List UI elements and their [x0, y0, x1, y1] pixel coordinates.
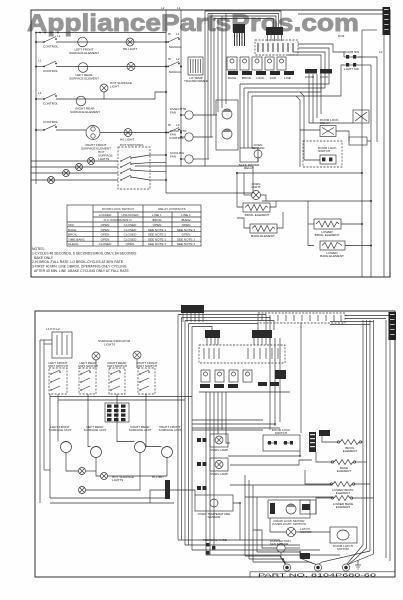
- svg-text:SEE NOTE 3: SEE NOTE 3: [148, 242, 167, 246]
- svg-text:ELEMENT: ELEMENT: [343, 449, 358, 453]
- right front dual surface element: [86, 126, 100, 140]
- misc horizontal wires bottom: [50, 396, 192, 398]
- small dark component top right: [319, 430, 330, 436]
- rung 3 wire: [36, 98, 44, 100]
- lamp hs4: [48, 177, 55, 184]
- switch rung4 right: [168, 128, 179, 133]
- connector bar row: [228, 71, 238, 75]
- svg-text:L1: L1: [38, 91, 42, 95]
- connector pair 2: [197, 462, 201, 466]
- wire top inner bus: [298, 13, 384, 15]
- svg-text:FAN: FAN: [170, 154, 176, 158]
- svg-text:HI-LIMIT: HI-LIMIT: [152, 475, 164, 479]
- switch left front control: [44, 37, 56, 43]
- lower bake element lower panel: [334, 496, 350, 501]
- svg-text:LINE 1: LINE 1: [181, 213, 191, 217]
- switch left rear control: [44, 61, 56, 67]
- svg-text:UNIT SWITCH: UNIT SWITCH: [48, 364, 68, 368]
- oven lamp 2: [210, 458, 228, 471]
- svg-text:SEE NOTE 1: SEE NOTE 1: [177, 237, 196, 241]
- svg-text:L2: L2: [379, 50, 383, 54]
- broil element: [243, 203, 270, 212]
- left wiring mesh: [57, 394, 59, 442]
- svg-text:RELAY: RELAY: [244, 166, 254, 170]
- svg-text:2-HI BROIL-FULL RATE. LO BROIL: 2-HI BROIL-FULL RATE. LO BROIL-CYCLES AT…: [32, 260, 124, 264]
- lamp row wire 3: [31, 172, 118, 174]
- lamp HS light 4: [124, 129, 132, 137]
- svg-text:OPEN: OPEN: [101, 223, 110, 227]
- svg-text:SWITCH: SWITCH: [318, 149, 330, 153]
- svg-text:TRANSFORMER: TRANSFORMER: [184, 79, 209, 83]
- lamp hs3: [63, 170, 70, 177]
- relay row: [227, 57, 237, 70]
- svg-text:MOTOR: MOTOR: [337, 547, 349, 551]
- top dashed connector strip: [258, 313, 345, 323]
- svg-text:UNIT SWITCH: UNIT SWITCH: [137, 364, 157, 368]
- svg-text:SURFACE UNIT: SURFACE UNIT: [84, 428, 107, 432]
- loop wire pair mid: [296, 96, 300, 167]
- svg-text:FAN: FAN: [270, 76, 276, 80]
- svg-text:SEE NOTE 1: SEE NOTE 1: [177, 228, 196, 232]
- central vertical harness: [177, 315, 179, 541]
- svg-text:L1: L1: [38, 59, 42, 63]
- svg-text:BROIL: BROIL: [242, 76, 252, 80]
- svg-text:L1: L1: [57, 34, 61, 38]
- surface unit element 2: [91, 447, 102, 458]
- svg-text:OVEN LAMP: OVEN LAMP: [210, 448, 228, 452]
- svg-text:SURFACE ELEMENT: SURFACE ELEMENT: [69, 51, 99, 55]
- svg-text:RELAY: RELAY: [320, 121, 330, 125]
- table notes: [32, 247, 137, 273]
- wire mesh right: [358, 56, 362, 58]
- switch rung2 right: [168, 62, 179, 67]
- bake element lower panel: [334, 460, 353, 465]
- svg-text:SENSOR: SENSOR: [207, 515, 221, 519]
- top panel border: [31, 10, 390, 277]
- wire bundle top: [205, 11, 281, 27]
- svg-text:LIGHTS: LIGHTS: [98, 157, 109, 161]
- svg-text:LINE: LINE: [284, 76, 291, 80]
- svg-text:CLEAN: CLEAN: [68, 242, 78, 246]
- broil element lower panel: [340, 440, 359, 445]
- svg-text:DOOR: DOOR: [305, 75, 315, 79]
- svg-text:ELEMENT: ELEMENT: [336, 491, 351, 495]
- top distribution wires: [178, 315, 266, 331]
- svg-text:THERMAL FUSE: THERMAL FUSE: [203, 538, 227, 542]
- svg-text:BAKE ONLY.: BAKE ONLY.: [34, 256, 54, 260]
- svg-text:OVEN LAMP: OVEN LAMP: [210, 472, 228, 476]
- mid horizontal wire: [135, 165, 253, 167]
- oven fan motor: [185, 111, 193, 119]
- svg-text:UNLOCKED: UNLOCKED: [121, 213, 139, 217]
- svg-text:MANUAL: MANUAL: [169, 70, 182, 74]
- svg-text:CONTROL: CONTROL: [169, 136, 184, 140]
- bus L1 vertical: [180, 10, 182, 166]
- hot surface light lamp: [100, 84, 108, 92]
- svg-text:L1: L1: [176, 32, 180, 36]
- svg-text:NOTES:: NOTES:: [32, 247, 45, 251]
- svg-text:SEE NOTE 1: SEE NOTE 1: [148, 237, 167, 241]
- hot surface lamp c: [79, 487, 86, 494]
- surface unit element 3: [135, 442, 146, 453]
- svg-text:OPEN: OPEN: [101, 237, 110, 241]
- door lock motor upper: [222, 109, 232, 119]
- svg-text:AFTER 40 MIN. LINE 1/BAKE CYCL: AFTER 40 MIN. LINE 1/BAKE CYCLING ONLY A…: [34, 269, 130, 273]
- wire rung3 to bus: [150, 92, 166, 99]
- connector block P1: [233, 24, 245, 33]
- hi-limit thermostat: [165, 480, 170, 499]
- lamp HE light 2: [127, 63, 135, 71]
- oven light motor 2: [185, 133, 193, 141]
- svg-text:OPEN: OPEN: [126, 242, 135, 246]
- lo temp transformer: [188, 57, 203, 75]
- wire y201: [262, 200, 371, 202]
- svg-text:HE LIGHT: HE LIGHT: [123, 47, 137, 51]
- wire pot box to bus: [150, 154, 166, 156]
- ground terminals small: [206, 543, 209, 546]
- svg-text:OPEN: OPEN: [153, 223, 162, 227]
- right vertical bus wires bottom panel: [362, 320, 364, 545]
- rung 1 wire: [36, 41, 44, 43]
- svg-text:SEE NOTE 2: SEE NOTE 2: [148, 233, 167, 237]
- svg-text:FAN: FAN: [170, 132, 176, 136]
- svg-text:LIGHTS: LIGHTS: [112, 478, 123, 482]
- door lock motor: [268, 500, 310, 518]
- svg-text:OFF: OFF: [68, 223, 74, 227]
- right rear surface element: [76, 96, 86, 106]
- svg-text:CONTROL: CONTROL: [43, 102, 58, 106]
- bake element: [250, 224, 277, 233]
- svg-text:L2: L2: [176, 57, 180, 61]
- svg-text:HI: HI: [168, 32, 171, 36]
- bake power relay box: [240, 148, 258, 162]
- vertical harness cluster: [204, 11, 206, 166]
- switch right front control: [44, 125, 56, 131]
- lamp row wire 4: [31, 179, 118, 181]
- svg-text:LIGHT SW: LIGHT SW: [344, 67, 359, 71]
- motor 3: [185, 155, 193, 163]
- svg-text:L1 P N L2: L1 P N L2: [46, 327, 60, 331]
- svg-text:SURFACE ELEMENT: SURFACE ELEMENT: [69, 76, 99, 80]
- svg-text:PART NO. 8104P680-60: PART NO. 8104P680-60: [258, 572, 377, 577]
- svg-text:LINE 1: LINE 1: [152, 213, 162, 217]
- bus under relays: [199, 391, 290, 393]
- svg-text:SENSOR: SENSOR: [251, 146, 265, 150]
- svg-text:POT SWITCHES: POT SWITCHES: [120, 143, 144, 147]
- svg-text:UNIT SWITCH: UNIT SWITCH: [78, 364, 98, 368]
- connector block P2: [266, 27, 283, 35]
- terminal block grid: [105, 403, 129, 422]
- left inner verticals: [39, 340, 41, 503]
- door motor box: [216, 100, 238, 150]
- hot surface lamp b: [101, 473, 108, 480]
- svg-text:SURFACE ELEMENT: SURFACE ELEMENT: [81, 146, 111, 150]
- bottom panel border: [35, 311, 395, 577]
- convection fan motor: [277, 544, 285, 552]
- wires to elements right: [361, 441, 364, 443]
- part number box right (rotated): [389, 312, 397, 340]
- svg-text:DOOR LOCK SWITCH: DOOR LOCK SWITCH: [102, 207, 134, 211]
- svg-text:BAKE ELEMENT: BAKE ELEMENT: [251, 234, 275, 238]
- connector pair 1: [197, 438, 201, 442]
- control connector block A: [205, 330, 220, 338]
- wires around elements: [237, 173, 243, 207]
- power cord terminals: [283, 564, 290, 571]
- oven mtr light: [252, 191, 261, 200]
- relay harness right: [308, 74, 310, 123]
- lamp row wire 2: [31, 166, 118, 168]
- svg-text:/BROIL: /BROIL: [152, 218, 162, 222]
- svg-text:LIGHTS: LIGHTS: [104, 342, 115, 346]
- door switch contact 2: [344, 64, 358, 66]
- svg-text:LIGHT: LIGHT: [110, 84, 119, 88]
- svg-text:DO2: DO2: [338, 34, 345, 38]
- lower bake element: [320, 241, 345, 250]
- switch rung1 right: [168, 37, 179, 42]
- part number box top right (rotated): [383, 7, 391, 35]
- svg-text:BROIL: BROIL: [68, 233, 78, 237]
- svg-text:HS LIGHT: HS LIGHT: [120, 138, 134, 142]
- svg-text:DOOR SW: DOOR SW: [344, 50, 359, 54]
- left rear surface element: [78, 63, 88, 73]
- switch right rear control: [44, 94, 56, 100]
- door lock switch dashed box: [303, 141, 342, 167]
- lamp HE light 1: [126, 38, 134, 46]
- table: [67, 205, 201, 246]
- part number strip: [250, 571, 395, 573]
- relay row bottom: [201, 370, 210, 382]
- door switch contact 1: [344, 56, 358, 58]
- lower broil element: [314, 219, 341, 229]
- svg-text:SURFACE UNIT: SURFACE UNIT: [129, 428, 152, 432]
- left front surface element: [78, 37, 88, 47]
- svg-text:FAN: FAN: [170, 110, 176, 114]
- svg-text:BAKE: BAKE: [68, 228, 76, 232]
- svg-text:HI: HI: [168, 57, 171, 61]
- svg-text:CONTROL: CONTROL: [43, 45, 58, 49]
- strip to right bus wires: [345, 315, 390, 317]
- oven connector dashed box: [255, 40, 298, 55]
- bus L2 vertical: [165, 10, 167, 193]
- component box right mid: [300, 500, 316, 514]
- top feeder wire: [36, 32, 166, 34]
- pin stack: [309, 432, 316, 452]
- svg-text:ELEMENT: ELEMENT: [336, 505, 351, 509]
- hot surface lamp a: [79, 468, 86, 475]
- svg-text:SURFACE UNIT: SURFACE UNIT: [49, 428, 72, 432]
- power connector frame left: [52, 332, 72, 358]
- rung 4 wire: [36, 129, 44, 131]
- wires into terminals: [245, 556, 285, 564]
- svg-text:UNIT SWITCH: UNIT SWITCH: [107, 364, 127, 368]
- svg-text:RELAY CONTACTS: RELAY CONTACTS: [158, 207, 186, 211]
- oven sensor circle: [254, 150, 262, 158]
- svg-text:OPEN: OPEN: [101, 228, 110, 232]
- connector pair 3: [197, 486, 201, 490]
- svg-text:CLOSED: CLOSED: [124, 223, 137, 227]
- control connector block B: [252, 330, 272, 338]
- svg-text:CLOSED: CLOSED: [124, 233, 137, 237]
- top connector block crossing border: [181, 305, 204, 313]
- surface unit element 4: [162, 447, 173, 458]
- oven sensor box: [195, 495, 233, 511]
- svg-text:L2: L2: [161, 6, 165, 10]
- door switch feed vertical: [300, 322, 302, 433]
- svg-text:BAKE: BAKE: [228, 76, 236, 80]
- svg-text:SWITCH: SWITCH: [275, 431, 287, 435]
- ground symbol: [357, 560, 359, 565]
- indicator lamp 2: [133, 351, 141, 359]
- svg-text:TIME BAKE: TIME BAKE: [68, 237, 85, 241]
- door lock motor lower: [222, 129, 232, 139]
- indicator lamp 1: [92, 352, 100, 360]
- svg-text:BROIL ELEMENT: BROIL ELEMENT: [315, 233, 340, 237]
- oven lamp 1: [210, 434, 228, 447]
- wire y173: [237, 172, 362, 174]
- latch motor: [286, 527, 295, 536]
- svg-text:BAKE ELEMENT: BAKE ELEMENT: [320, 254, 344, 258]
- left feeder wire: [35, 33, 37, 185]
- lamp hs1: [88, 158, 95, 165]
- svg-text:SEE NOTE 1: SEE NOTE 1: [148, 228, 167, 232]
- svg-text:MANUAL: MANUAL: [169, 45, 182, 49]
- svg-text:CLOSED: CLOSED: [99, 242, 112, 246]
- svg-text:L1: L1: [177, 6, 181, 10]
- svg-text:CLOSED: CLOSED: [124, 237, 137, 241]
- svg-text:FAN MOTOR: FAN MOTOR: [270, 542, 289, 546]
- svg-text:/BAKE: /BAKE: [181, 218, 190, 222]
- svg-text:1-CYCLES 48 SECONDS, 6 SECONDS: 1-CYCLES 48 SECONDS, 6 SECONDS BROIL ONL…: [32, 251, 137, 255]
- right-of-board verticals: [269, 338, 271, 430]
- lower broil element lower panel: [333, 482, 352, 487]
- svg-text:OPEN: OPEN: [182, 233, 191, 237]
- svg-text:OPEN: OPEN: [182, 223, 191, 227]
- svg-text:LOCKED: LOCKED: [99, 213, 112, 217]
- svg-text:CONTROL: CONTROL: [43, 69, 58, 73]
- svg-text:(OVEN LIGHT SWITCH): (OVEN LIGHT SWITCH): [272, 522, 306, 526]
- svg-text:OPEN: OPEN: [101, 233, 110, 237]
- harness into lower area: [244, 475, 246, 556]
- svg-text:HI: HI: [168, 123, 171, 127]
- svg-text:BROIL ELEMENT: BROIL ELEMENT: [245, 213, 270, 217]
- svg-text:3-FIRST 40 MIN. LINE 1/BROIL O: 3-FIRST 40 MIN. LINE 1/BROIL OPERATING O…: [32, 265, 127, 269]
- aux component box: [349, 137, 367, 145]
- rung 2 wire: [36, 66, 44, 68]
- door latch motor: [330, 527, 357, 543]
- svg-text:ELEMENT: ELEMENT: [337, 469, 352, 473]
- small dark box bottom right: [300, 553, 310, 559]
- clean relay box: [353, 110, 369, 123]
- right bus wires: [361, 30, 363, 277]
- svg-text:SURFACE ELEMENT: SURFACE ELEMENT: [70, 110, 100, 114]
- control board dashed box: [199, 345, 285, 363]
- lamp row wire 1: [31, 160, 118, 162]
- lamp hs2: [76, 164, 83, 171]
- wire contact to lock box: [358, 57, 377, 142]
- svg-text:SEE NOTE 3: SEE NOTE 3: [177, 242, 196, 246]
- svg-text:LOCK: LOCK: [256, 76, 265, 80]
- svg-text:CONTROL: CONTROL: [43, 120, 58, 124]
- svg-text:CLOSED: CLOSED: [124, 228, 137, 232]
- surface unit element 1: [61, 442, 72, 453]
- central-lower vertical harness: [205, 392, 207, 555]
- svg-text:L2: L2: [176, 123, 180, 127]
- svg-text:N.C./COMMON/N.O.: N.C./COMMON/N.O.: [104, 218, 133, 222]
